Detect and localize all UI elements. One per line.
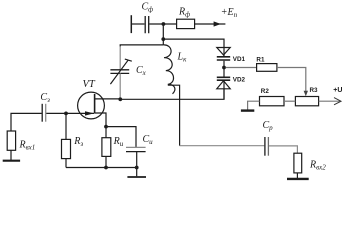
ground under Rвх1 [3,160,20,162]
wire R2 to ground [248,101,260,110]
diode VD1 wire from rail [223,48,225,57]
transistor VT gate arrow [85,111,94,115]
resistor Rф [177,19,195,28]
diode VD2 triangle [217,81,230,89]
inductor Lк coil [163,45,174,94]
ground under Cи [127,176,146,178]
svg-text:R1: R1 [256,57,265,64]
svg-text:+U: +U [333,87,342,94]
wire tank left branch upper (grey) [119,46,121,70]
node Rи at rail [104,166,108,170]
node Cи at rail [135,166,139,170]
capacitor Cx plates [110,70,129,74]
wire vertical from Cф node down [162,24,164,45]
wire Rвх1 to ground [10,150,12,160]
capacitor Cф left terminal bar [130,15,132,33]
wire Cр to Rвх2 (grey) [269,146,297,153]
wire bottom rail [66,167,137,169]
resistor Rвх2 [294,153,302,173]
node gate junction [64,112,68,116]
resistor R3 [295,97,318,106]
resistor Rи [102,138,111,157]
ground under Rвх2 [287,178,309,180]
resistor Rз [62,139,71,158]
arrow onto R3 wiper [304,91,308,97]
wire Cф left lead [132,23,145,25]
svg-text:R3: R3 [310,87,319,94]
+U output arrow [334,98,341,105]
wire Rз to bottom rail [65,159,67,168]
capacitor Cр plates [264,137,266,156]
resistor R1 [257,64,277,72]
node junction at Cф/Rф [162,22,166,26]
wire input to Cз [11,113,42,131]
wire tank left branch lower (grey) [119,73,121,98]
node varicap junction [222,66,226,70]
wire source node to Cи [106,127,136,148]
node drain junction [118,97,122,101]
wire R3 to +U [319,100,340,102]
wire Cф to node [149,23,176,25]
wire tap to Cр (grey) [180,145,265,147]
transistor VT channel bar [94,94,96,114]
diode VD1 cathode bars [217,57,230,60]
ground under R2 [241,109,254,111]
svg-text:R2: R2 [261,88,270,95]
transistor VT body circle [78,92,105,119]
diode VD1 triangle [217,48,230,56]
svg-text:VD2: VD2 [233,77,246,84]
wire gate node to Rз [65,113,67,139]
wire R2 to R3 [284,100,295,102]
wire Rи to bottom rail [105,156,107,167]
node source junction [104,125,108,129]
wire Rвх2 to ground [296,173,298,178]
capacitor Cx adjustment arrow [110,59,131,84]
wire Cз to gate [46,112,94,114]
capacitor Cи plates [126,146,146,148]
wire varicap node to R1 [226,67,257,69]
node junction to varicap rail [161,37,165,41]
wire rail to tank left branch [120,45,163,47]
svg-text:VD1: VD1 [233,56,246,63]
wire tank bottom rail [120,89,224,100]
capacitor Cз plates [41,104,43,122]
wire R1 to R3 wiper [277,68,306,92]
wire rail to varicaps [163,39,224,47]
diode VD2 cathode bars [217,77,230,80]
transistor VT source lead [95,113,106,127]
wire Cи to bottom rail [136,152,138,168]
wire source node down to Rи [105,127,107,138]
wire VD2 to rail [223,81,225,100]
wire coil tap [168,85,180,146]
resistor Rвх1 [7,131,15,150]
resistor R2 [260,97,285,106]
wire rail to ground [136,168,138,177]
wire between varicaps [223,61,225,77]
transistor VT drain lead [95,98,121,100]
svg-text:VT: VT [83,79,96,90]
+Eп supply arrow [214,21,221,26]
wire Rф to +Eп arrow [195,23,226,25]
capacitor Cф plates [145,16,149,33]
